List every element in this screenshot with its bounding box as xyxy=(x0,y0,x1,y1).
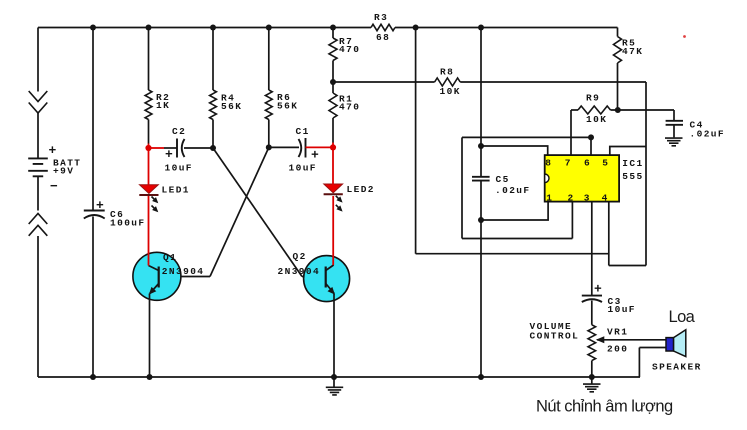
svg-text:Q2: Q2 xyxy=(293,251,307,262)
svg-text:R9: R9 xyxy=(586,93,600,104)
svg-text:6: 6 xyxy=(584,158,591,169)
svg-text:C1: C1 xyxy=(296,126,310,137)
svg-text:10uF: 10uF xyxy=(165,163,193,174)
svg-text:1K: 1K xyxy=(156,100,170,111)
svg-text:7: 7 xyxy=(565,158,572,169)
svg-text:.02uF: .02uF xyxy=(495,185,531,196)
svg-text:10K: 10K xyxy=(586,114,607,125)
svg-text:8: 8 xyxy=(545,158,552,169)
svg-text:470: 470 xyxy=(339,44,360,55)
svg-text:100uF: 100uF xyxy=(110,218,146,229)
svg-text:2N3904: 2N3904 xyxy=(278,266,321,277)
svg-text:VR1: VR1 xyxy=(607,327,628,338)
svg-text:IC1: IC1 xyxy=(622,158,643,169)
svg-text:3: 3 xyxy=(584,193,591,204)
svg-text:+: + xyxy=(594,282,602,297)
svg-text:10uF: 10uF xyxy=(289,163,317,174)
svg-text:4: 4 xyxy=(602,193,609,204)
svg-text:CONTROL: CONTROL xyxy=(530,331,580,342)
svg-text:SPEAKER: SPEAKER xyxy=(652,362,702,373)
svg-text:−: − xyxy=(50,179,58,194)
svg-text:+9V: +9V xyxy=(53,166,74,177)
svg-text:LED1: LED1 xyxy=(162,185,190,196)
svg-text:LED2: LED2 xyxy=(347,184,375,195)
svg-text:C5: C5 xyxy=(496,174,510,185)
svg-text:10K: 10K xyxy=(440,86,461,97)
svg-text:5: 5 xyxy=(602,158,609,169)
svg-text:R3: R3 xyxy=(374,12,388,23)
svg-text:470: 470 xyxy=(339,102,360,113)
svg-text:+: + xyxy=(165,147,173,162)
svg-text:10uF: 10uF xyxy=(608,304,636,315)
svg-text:C2: C2 xyxy=(172,126,186,137)
svg-text:56K: 56K xyxy=(277,101,298,112)
svg-text:R8: R8 xyxy=(440,67,454,78)
svg-text:2N3904: 2N3904 xyxy=(162,266,205,277)
svg-text:Loa: Loa xyxy=(669,308,696,326)
svg-text:Nút chỉnh âm lượng: Nút chỉnh âm lượng xyxy=(536,398,673,416)
svg-text:47K: 47K xyxy=(622,46,643,57)
svg-text:+: + xyxy=(96,198,104,213)
svg-text:56K: 56K xyxy=(221,101,242,112)
svg-text:555: 555 xyxy=(622,171,643,182)
svg-text:+: + xyxy=(49,143,57,158)
svg-text:Q1: Q1 xyxy=(163,252,177,263)
svg-text:68: 68 xyxy=(376,32,390,43)
svg-text:200: 200 xyxy=(607,344,628,355)
svg-text:2: 2 xyxy=(568,193,575,204)
svg-text:1: 1 xyxy=(546,193,553,204)
svg-text:.02uF: .02uF xyxy=(690,129,726,140)
svg-text:+: + xyxy=(311,148,319,163)
